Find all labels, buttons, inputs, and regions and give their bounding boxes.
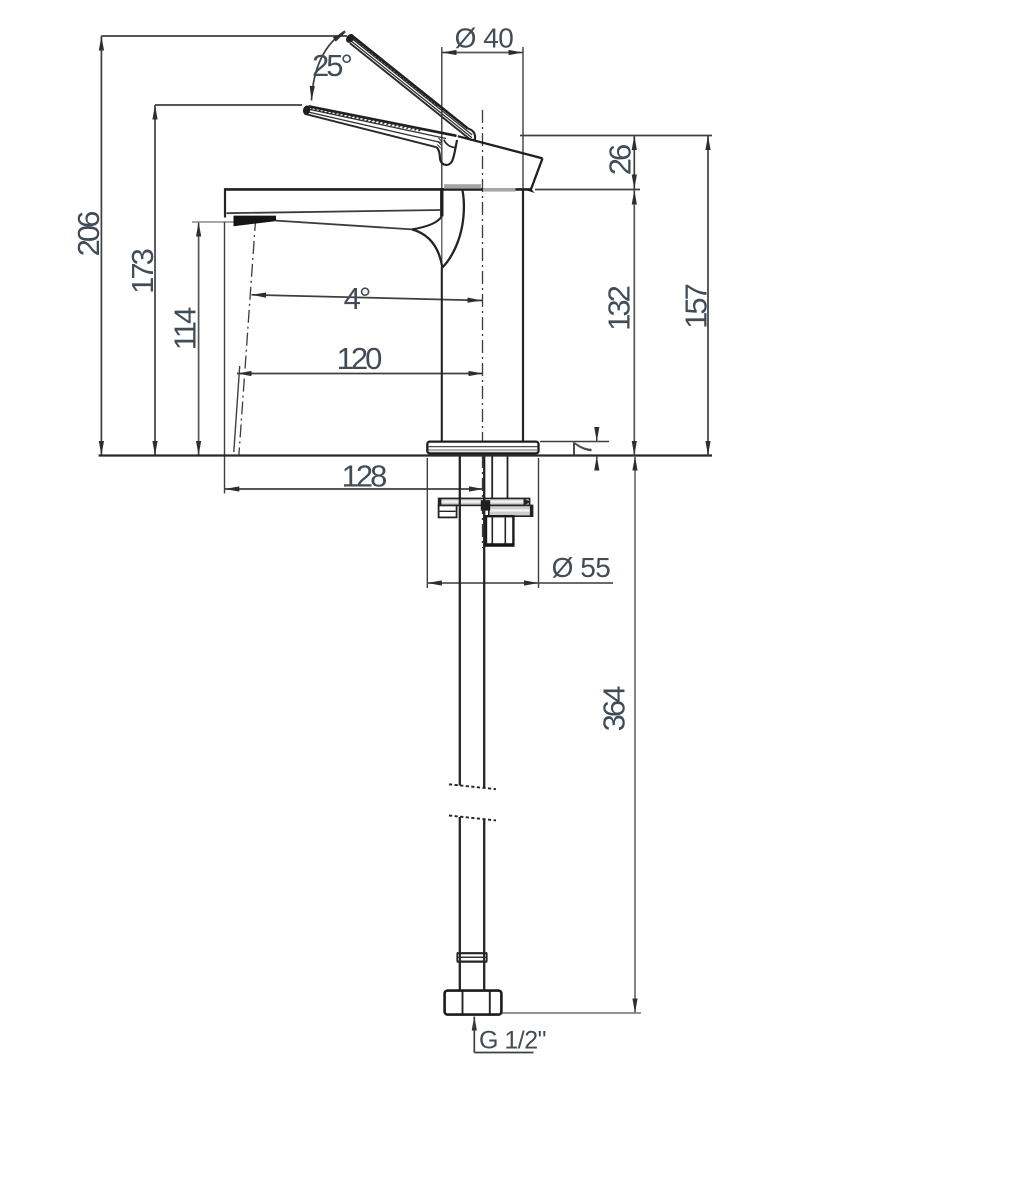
- spout top inner line B: [227, 210, 441, 213]
- supply hose lower right edge: [483, 820, 485, 991]
- extension line 114 spout outlet level: [192, 221, 256, 223]
- handle cap corner wedge: [527, 188, 534, 193]
- svg-text:7: 7: [567, 441, 597, 456]
- mounting stud right line: [507, 456, 509, 516]
- body right edge: [522, 190, 524, 442]
- label 206: [71, 212, 106, 256]
- svg-text:4°: 4°: [344, 281, 370, 316]
- fixing nut outline: [486, 516, 513, 545]
- extension line O40 left: [441, 47, 443, 189]
- countertop line: [99, 454, 712, 456]
- hex nut G 1/2 outline: [445, 991, 502, 1015]
- svg-text:G 1/2": G 1/2": [479, 1027, 546, 1055]
- spout stream axis dash-dot: [239, 218, 256, 455]
- svg-text:132: 132: [602, 286, 637, 330]
- handle neck hatch: [437, 138, 442, 148]
- handle lever raised bottom edge: [350, 43, 472, 140]
- leader G 1/2: [472, 1016, 534, 1053]
- spout body fairing curve: [442, 190, 464, 268]
- svg-text:26: 26: [603, 145, 638, 175]
- label O40: [455, 23, 514, 54]
- horseshoe bracket top band: [439, 498, 530, 505]
- hose break mark upper: [449, 784, 496, 789]
- fixing nut facets: [492, 518, 505, 545]
- label 25 deg: [312, 48, 351, 83]
- label 120: [337, 341, 382, 376]
- label O55: [552, 552, 611, 583]
- spout under curve 1: [412, 217, 442, 230]
- body left edge thick top: [440, 188, 443, 217]
- extension line top 206 raised lever tip level: [101, 35, 347, 37]
- extension line nut bottom: [502, 1012, 641, 1014]
- spout under line C: [276, 221, 412, 230]
- handle lever lowered inner line 1: [307, 109, 446, 139]
- mounting stud left line: [491, 456, 493, 516]
- svg-text:364: 364: [597, 686, 632, 731]
- horseshoe bracket front band: [489, 505, 533, 516]
- extension line cap top level: [520, 135, 712, 137]
- extension line 128 left spout tip: [224, 222, 226, 494]
- fixing nut bottom edge: [487, 543, 514, 546]
- handle lever lowered hatching: [311, 107, 422, 131]
- base plate outline: [427, 442, 538, 454]
- handle lever lowered tip cap: [302, 105, 311, 116]
- supply hose upper left edge: [459, 456, 461, 785]
- svg-text:157: 157: [678, 284, 713, 328]
- handle pivot arc: [444, 140, 455, 148]
- bracket center dark boss: [481, 500, 490, 510]
- handle lever lowered inner line 2: [306, 112, 441, 143]
- dimension 206 vertical line: [99, 36, 104, 456]
- handle lever lowered bottom edge: [305, 114, 437, 148]
- hose break mark lower: [449, 816, 496, 821]
- base plate inner line: [429, 446, 538, 448]
- dimension 25 deg arc: [309, 29, 348, 100]
- label 26: [603, 145, 638, 175]
- label G 1/2: [479, 1027, 546, 1055]
- dimension 364 line: [632, 456, 637, 1013]
- label 132: [602, 286, 637, 330]
- dimension O40 line: [442, 50, 523, 55]
- horseshoe bracket front band right end: [530, 505, 533, 516]
- extension line body top level right: [535, 189, 640, 191]
- hex nut facets: [463, 992, 490, 1014]
- label 4 deg: [344, 281, 370, 316]
- svg-text:120: 120: [337, 341, 382, 376]
- dimension 26 line: [632, 136, 637, 190]
- label 7: [567, 441, 597, 456]
- aerator outlet dark block: [234, 216, 277, 227]
- svg-text:Ø 40: Ø 40: [455, 23, 514, 54]
- extension line 120 tilted: [234, 366, 240, 452]
- handle lever raised top edge: [352, 36, 468, 129]
- dimension 157 line: [705, 136, 710, 456]
- dimension 120 line: [237, 371, 483, 376]
- body centerline dash-dot: [482, 110, 484, 548]
- label 128: [342, 459, 386, 494]
- label 364: [597, 686, 632, 731]
- spout and body top line: [225, 188, 531, 191]
- svg-text:128: 128: [342, 459, 386, 494]
- dimension O55 line: [427, 580, 613, 585]
- extension line O55 right: [538, 458, 540, 588]
- supply hose lower left edge: [459, 817, 461, 991]
- hose collar band: [457, 953, 487, 961]
- svg-text:114: 114: [168, 307, 203, 350]
- handle lever raised inner line 2: [351, 41, 472, 138]
- extension line plate top right: [540, 441, 609, 443]
- handle lever raised inner line 1: [351, 38, 473, 135]
- handle cap top edge: [458, 136, 543, 158]
- label 173: [125, 249, 160, 293]
- horseshoe bracket top band left end: [439, 498, 442, 505]
- handle neck outline: [437, 140, 457, 165]
- extension line 173 lowered lever tip level: [155, 104, 302, 106]
- dimension 128 line: [225, 486, 484, 491]
- handle lever raised hatching: [355, 38, 437, 106]
- horseshoe bracket left slot piece: [439, 505, 457, 517]
- svg-text:206: 206: [71, 212, 106, 256]
- dimension 132 line: [632, 190, 637, 456]
- dimension 114 vertical line: [196, 222, 201, 456]
- gray joint shade under cap right: [483, 188, 516, 192]
- body left edge: [441, 267, 443, 442]
- handle lever raised tip cap: [344, 32, 356, 44]
- extension line O55 left: [426, 458, 428, 588]
- spout left edge: [224, 188, 226, 217]
- dimension 173 vertical line: [152, 105, 157, 456]
- spout under curve 2: [412, 229, 442, 267]
- base plate gray stripe: [429, 449, 538, 451]
- handle lever raised butt cap: [468, 129, 475, 141]
- handle cap right edge: [531, 158, 543, 190]
- supply hose upper right edge: [483, 456, 485, 788]
- handle lever lowered top edge: [309, 106, 457, 136]
- svg-text:173: 173: [125, 249, 160, 293]
- body left edge ext segment: [441, 216, 443, 268]
- label 114: [168, 307, 203, 350]
- dimension 4 deg line: [251, 292, 482, 303]
- svg-text:Ø 55: Ø 55: [552, 552, 611, 583]
- svg-text:25°: 25°: [312, 48, 351, 83]
- extension line O40 right: [522, 47, 524, 190]
- dimension 7 arrows: [594, 427, 599, 471]
- gray joint shade under cap left: [444, 184, 481, 188]
- horseshoe bracket top band right point: [524, 498, 531, 505]
- label 157: [678, 284, 713, 328]
